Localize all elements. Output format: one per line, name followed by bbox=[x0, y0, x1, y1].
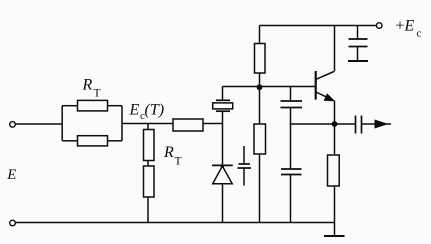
resistor bias upper bbox=[255, 44, 266, 74]
wire collector riser bbox=[334, 26, 336, 72]
svg-text:T: T bbox=[175, 156, 182, 168]
wire RE to bottom rail bbox=[334, 186, 336, 223]
capacitor C4 (output coupling) bbox=[356, 116, 362, 134]
wire base net (crystal to transistor base) bbox=[223, 86, 316, 88]
capacitor C3 (supply bypass) bbox=[348, 26, 368, 62]
terminal +Ec bbox=[376, 23, 382, 29]
wire top branch left bbox=[62, 105, 77, 107]
wire crystal top stub bbox=[222, 87, 224, 101]
wire series R to crystal branch bbox=[203, 123, 223, 125]
resistor RT (top of parallel pair) bbox=[78, 100, 108, 111]
label RT (vertical divider) bbox=[163, 144, 182, 168]
wire bottom rail bbox=[16, 222, 335, 224]
wire bottom branch left bbox=[62, 140, 77, 142]
svg-text:E: E bbox=[404, 18, 415, 35]
terminal input E (bottom-left) bbox=[10, 220, 16, 226]
svg-text:T: T bbox=[94, 88, 101, 100]
resistor (lower of vertical divider) bbox=[144, 166, 155, 197]
label RT (parallel pair) bbox=[82, 77, 101, 100]
wire divider to bottom rail bbox=[147, 197, 149, 223]
resistor series R bbox=[173, 119, 203, 131]
svg-text:c: c bbox=[417, 28, 422, 40]
label +Ec bbox=[396, 18, 422, 40]
capacitor C1 (feedback divider upper) bbox=[281, 101, 303, 108]
node emitter junction dot bbox=[332, 121, 338, 127]
resistor emitter RE bbox=[328, 155, 340, 186]
svg-text:+: + bbox=[396, 18, 405, 35]
wire output bbox=[362, 123, 392, 125]
svg-text:R: R bbox=[163, 144, 174, 161]
wire input to parallel pair bbox=[15, 123, 62, 125]
wire bottom branch right bbox=[108, 140, 123, 142]
wire divider cap stub bbox=[290, 87, 292, 102]
node base junction dot bbox=[257, 84, 263, 90]
wire bias lower to bottom rail bbox=[259, 154, 261, 223]
diode D1 (varactor, pointing up) bbox=[212, 165, 233, 184]
svg-text:E: E bbox=[6, 167, 16, 183]
crystal Y1 bbox=[213, 100, 233, 111]
svg-text:(T): (T) bbox=[145, 102, 165, 119]
resistor (bottom of parallel pair) bbox=[78, 136, 108, 146]
wire base node down bbox=[259, 87, 261, 125]
ground bbox=[324, 223, 345, 237]
wire node down to RT divider bbox=[147, 124, 149, 130]
wire between divider resistors bbox=[147, 161, 149, 167]
wire emitter down bbox=[334, 101, 336, 155]
wire crystal branch vertical bbox=[222, 111, 224, 165]
label Ec(T) bbox=[129, 102, 165, 123]
capacitor (trimmer beside diode) bbox=[238, 146, 252, 186]
svg-text:R: R bbox=[82, 77, 93, 94]
resistor bias lower bbox=[254, 124, 266, 154]
output arrow bbox=[375, 120, 389, 129]
wire diode to bottom rail bbox=[222, 184, 224, 223]
svg-text:E: E bbox=[129, 102, 140, 119]
transistor Q1 (NPN) bbox=[316, 71, 334, 101]
wire divider tap to emitter bbox=[291, 123, 335, 125]
wire top rail bbox=[260, 25, 377, 27]
wire C2 to bottom rail bbox=[290, 175, 292, 223]
wire bias upper to base node bbox=[259, 73, 261, 87]
resistor RT (upper of vertical divider) bbox=[144, 130, 155, 161]
wire top branch right bbox=[108, 105, 123, 107]
wire between divider caps bbox=[290, 108, 292, 170]
wire emitter to output cap bbox=[335, 123, 356, 125]
terminal input E (top-left) bbox=[10, 122, 16, 128]
wire left bar of parallel pair bbox=[61, 106, 63, 141]
wire node Ec(T) to series resistor bbox=[122, 123, 173, 125]
capacitor C2 (feedback divider lower) bbox=[281, 169, 302, 175]
wire right bar of parallel pair bbox=[121, 106, 123, 141]
wire top rail to bias resistor bbox=[259, 26, 261, 44]
